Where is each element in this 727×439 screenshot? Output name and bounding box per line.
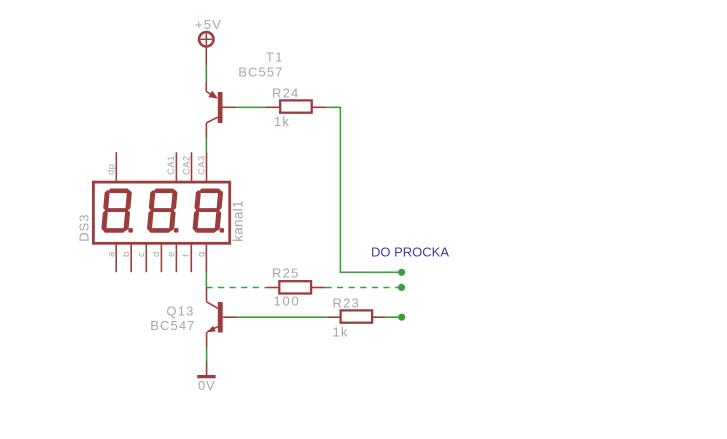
svg-text:1k: 1k (333, 325, 349, 340)
svg-text:BC547: BC547 (150, 318, 195, 333)
node C junction dot (398, 314, 405, 321)
svg-text:e: e (166, 252, 177, 257)
pin g (196, 243, 207, 272)
svg-text:dp: dp (106, 164, 117, 175)
svg-text:DS3: DS3 (77, 214, 92, 242)
pin CA3 (196, 152, 207, 182)
pin d (151, 243, 162, 272)
svg-text:R23: R23 (333, 296, 360, 311)
svg-text:+5V: +5V (195, 17, 222, 32)
svg-text:CA3: CA3 (196, 155, 207, 175)
wire R24 to node DO PROCKA top (312, 107, 399, 272)
supply +5V symbol (199, 32, 213, 46)
wire T1 collector to display CA3 (205, 123, 207, 152)
svg-text:T1: T1 (266, 50, 284, 65)
wire T1 base to R24 (236, 106, 280, 108)
pin CA1 (166, 152, 177, 182)
wire +5V to T1 emitter (205, 46, 207, 91)
wire Q13 emitter to ground (206, 332, 208, 375)
node A junction dot (398, 269, 405, 276)
ground 0V symbol (197, 375, 215, 378)
svg-text:c: c (136, 252, 147, 257)
svg-text:100: 100 (274, 294, 301, 309)
display DS3 (3-digit 7-segment) (93, 182, 229, 243)
svg-text:0V: 0V (198, 378, 216, 393)
svg-text:b: b (121, 252, 132, 257)
pin a (106, 243, 117, 272)
node B junction dot (398, 284, 405, 291)
svg-text:a: a (106, 251, 117, 257)
pin c (136, 243, 147, 272)
pin e (166, 243, 177, 272)
svg-text:d: d (151, 252, 162, 257)
pin f (181, 243, 192, 272)
wire display g to junction (205, 272, 207, 287)
svg-text:R24: R24 (272, 86, 299, 101)
svg-text:BC557: BC557 (238, 65, 283, 80)
dashed net to R25 and node B (206, 287, 398, 289)
resistor R23 (341, 310, 373, 322)
resistor R24 (280, 100, 312, 112)
pin dp (106, 152, 117, 182)
svg-text:CA1: CA1 (166, 155, 177, 175)
pin CA2 (181, 152, 192, 182)
wire Q13 base to R23 (237, 316, 341, 318)
resistor R25 (266, 281, 325, 293)
svg-text:f: f (181, 254, 192, 257)
svg-text:DO PROCKA: DO PROCKA (371, 245, 449, 260)
svg-text:Q13: Q13 (166, 304, 194, 319)
svg-text:kanal1: kanal1 (231, 200, 246, 242)
transistor T1 (206, 91, 236, 123)
wire R23 to node C (372, 316, 398, 318)
svg-text:g: g (196, 252, 207, 257)
svg-text:1k: 1k (274, 114, 290, 129)
pin b (121, 243, 132, 272)
transistor Q13 (207, 288, 238, 333)
svg-text:CA2: CA2 (181, 155, 192, 175)
svg-text:R25: R25 (272, 266, 299, 281)
